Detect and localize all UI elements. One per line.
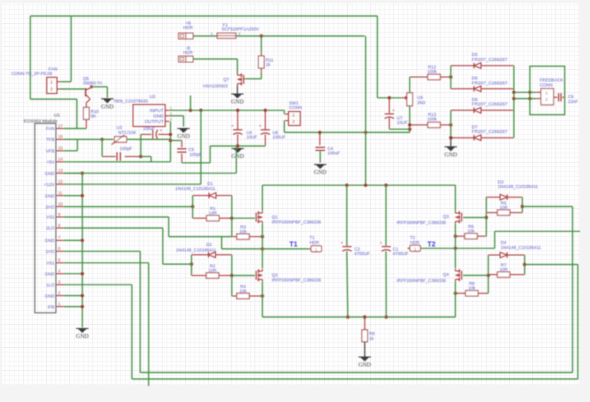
wire R4 left vert [231, 276, 233, 297]
transistor Q5 S8050-TA [83, 76, 103, 107]
resistor R12 100k [410, 65, 451, 80]
wire C3 drop to +5V row [150, 157, 152, 162]
wire T1 row [222, 248, 309, 250]
wire top +12V rail [30, 15, 377, 17]
resistor R13 100k [410, 112, 451, 128]
connector SW1 CONN [285, 100, 302, 125]
junction rail C1 [384, 184, 387, 187]
header T2 HDR [408, 235, 421, 252]
ground U4 U6 [231, 149, 244, 161]
diode D4 symbol [488, 252, 524, 258]
junction bus fb2 [512, 97, 515, 100]
junction bus pin11 [81, 194, 84, 197]
capacitor U4 10UF [231, 125, 257, 140]
wire U5 top lead [409, 77, 411, 93]
wire GND bus [81, 173, 83, 327]
junction loop fb2 [528, 97, 531, 100]
wire gate Q4 [463, 274, 488, 276]
capacitor C5 100pF [177, 141, 202, 163]
thermistor U3 NTC/10K [112, 125, 137, 144]
ground Q7 [231, 86, 244, 106]
junction TFB [100, 138, 103, 141]
junction R2 gate [230, 274, 233, 277]
junction U7 top [388, 96, 391, 99]
header +B HDR [179, 20, 193, 39]
wire D3 right vert [521, 197, 523, 212]
junction riser cap [169, 133, 172, 136]
wire FAN node drop [76, 99, 78, 128]
wire U2 gnd [169, 115, 183, 117]
wire Q5 emitter down [106, 87, 108, 98]
connector FAN CONN-TH_2P-P5.08 [11, 67, 60, 94]
diode D1 symbol [193, 193, 232, 199]
wire 1HO drop [139, 251, 141, 372]
wire 2LO row [64, 227, 163, 229]
ground R9 [358, 342, 371, 369]
wire U4 lead bot [237, 134, 239, 146]
label Q4 [397, 272, 450, 283]
wire TFB row 2 [102, 138, 113, 140]
wire VS2 drop [168, 217, 170, 237]
junction bus pin7 [81, 239, 84, 242]
label T1 net [289, 241, 297, 248]
junction R12 right [449, 75, 452, 78]
resistor R8 10k [455, 281, 488, 296]
wire D4 left vert [487, 255, 489, 293]
junction bus pin1 [81, 305, 84, 308]
junction D3 out [521, 205, 524, 208]
wire VS1 top row [495, 230, 580, 232]
wire +B to fuse [193, 35, 217, 37]
junction U5 R13 [408, 123, 411, 126]
wire VS1 riser [494, 231, 496, 248]
wire U5 bot lead [409, 106, 411, 133]
wire pin2 to bus [64, 295, 82, 297]
wire 1HO row [64, 250, 140, 252]
diode D6 symbol [451, 86, 514, 92]
transistor Q7 HSH100N03 [237, 73, 243, 86]
junction C4 top [318, 131, 321, 134]
junction gate Q3 [485, 216, 488, 219]
wire VS1 row [64, 262, 149, 264]
capacitor C6 22nF [554, 93, 579, 104]
fuse F1 SCF520PF1A250V [211, 22, 260, 38]
wire SW1 pin1 up [283, 110, 285, 114]
capacitor 100uF U2 output [141, 126, 171, 139]
wire D4 right vert [524, 255, 526, 275]
wire 1HO right riser [572, 207, 574, 373]
diode D7 symbol [451, 135, 514, 141]
wire Q3 drain up [454, 185, 456, 211]
wire D1 left vert [192, 196, 194, 219]
wire T2 row right [455, 247, 494, 249]
wire 1LO drop [131, 285, 133, 379]
wire T2 row [420, 247, 455, 249]
wire 2HO row [64, 206, 193, 208]
wire caps gnd row [210, 145, 265, 147]
wire fuse right [236, 35, 365, 37]
resistor R5 10R [486, 200, 522, 215]
wire R11 to gate [246, 72, 262, 79]
wire 1LO bottom rail [132, 378, 578, 380]
diode D2 1N4148_C10195411 [176, 242, 217, 252]
wire fb pin1 [514, 91, 537, 93]
junction input row a [189, 109, 192, 112]
header -B HDR [179, 46, 193, 62]
diode D5 FR207_C266267 [472, 52, 508, 62]
resistor R2 10R [192, 263, 232, 278]
ground D7 R13 [445, 138, 458, 159]
wire 2LO drop [162, 228, 164, 264]
diode D4 1N4148_C10195411 [501, 240, 542, 250]
wire main vertical [365, 36, 367, 132]
junction R1 gate [230, 217, 233, 220]
wire pin1 to bus [64, 306, 82, 308]
diode D6 FR207_C266267 [472, 76, 508, 86]
wire bridge top rail [262, 184, 455, 186]
wire Q5 emitter [93, 86, 108, 88]
wire gate Q3 [463, 217, 486, 219]
diode D8 FR207_C266267 [472, 97, 508, 107]
wire GND13 riser [235, 146, 237, 173]
wire U2 gnd drop [183, 116, 185, 127]
wire diode bus [513, 66, 515, 138]
wire U6 lead top [264, 110, 266, 129]
label Q1 [272, 214, 322, 224]
junction bot R9 [363, 315, 366, 318]
junction bus pin13 [81, 172, 84, 175]
junction bot C2 [346, 315, 349, 318]
junction T2 node [454, 247, 457, 250]
capacitor C3 100pF [102, 146, 141, 161]
wire C1 bot lead [385, 251, 387, 317]
resistor R10 5K [84, 107, 100, 129]
wire -B right [193, 58, 237, 60]
wire D5 left vert [450, 66, 452, 89]
wire switched row [284, 131, 409, 133]
wire 2LO to node [163, 263, 192, 265]
junction U6 top [264, 109, 267, 112]
resistor R9 1k [362, 317, 375, 342]
wire U4 lead top [237, 110, 239, 129]
wire VS2 to node [169, 236, 232, 238]
capacitor C4 100uF [319, 132, 321, 145]
junction U4 top [236, 109, 239, 112]
label Q3 [397, 214, 450, 225]
ground U2 [177, 129, 190, 141]
junction VS2 node [261, 235, 264, 238]
wire wiper feed drop [376, 16, 378, 98]
wire D1 right vert [231, 196, 233, 219]
junction loop fb1 [528, 91, 531, 94]
junction fuse node [260, 34, 263, 37]
wire 1LO return [525, 264, 578, 266]
wire +12V row U1 [64, 183, 201, 185]
module U1 EGS002 [24, 113, 64, 313]
wire FAN pin1 [61, 81, 72, 83]
wire feedback loop [530, 66, 565, 115]
ground U1 bus [76, 329, 89, 341]
wire rail right corner [454, 184, 456, 186]
diode D3 symbol [486, 194, 522, 200]
junction R4 right [261, 294, 264, 297]
capacitor U6 100UF [259, 125, 286, 140]
junction T1 node [261, 247, 264, 250]
wire main vertical 2 [365, 132, 367, 185]
capacitor C1 4700UF [380, 241, 409, 256]
wire FAN pin1 up [70, 16, 72, 82]
wire U6 lead bot [264, 134, 266, 146]
resistor R7 10R [488, 262, 524, 277]
junction bus pin4 [81, 272, 84, 275]
wire 1LO right riser [577, 265, 579, 380]
resistor R1 10R [193, 206, 232, 221]
wire C1 top lead [385, 185, 387, 246]
wire gate Q2 [232, 275, 255, 277]
diode D3 1N4148_C10195411 [498, 179, 539, 189]
junction gate Q4 [487, 274, 490, 277]
wire C4 bottom [319, 150, 321, 162]
wire pin13 to bus [64, 172, 82, 174]
header T1 HDR [309, 235, 322, 252]
capacitor C4 plates [315, 146, 340, 156]
wire +12V input row [169, 109, 284, 111]
wire Q7 gate lead [244, 78, 246, 80]
wire C3 to +5V [141, 156, 151, 158]
wire T1 jog vert [221, 237, 223, 249]
junction 2HO [191, 205, 194, 208]
wire FAN pin2 [61, 88, 85, 90]
junction D4 out [523, 263, 526, 266]
transistor Q3 IRFP260NPBF_C386336 [455, 211, 461, 224]
wire C5 bottom row [182, 162, 210, 164]
ground C4 [314, 165, 327, 177]
wire 1HO return [522, 206, 572, 208]
junction rail feed [364, 184, 367, 187]
label T2 net [427, 241, 435, 248]
junction R8 left [454, 292, 457, 295]
wire -B down to Q7 [236, 59, 238, 73]
wire TFB row [64, 138, 102, 140]
wire C3 left drop [101, 139, 103, 156]
wire SW1 pin2 down [283, 121, 285, 133]
ground Q5 [101, 99, 114, 111]
regulator U2 7805_C22378630 [113, 94, 172, 126]
junction input row b [199, 109, 202, 112]
wire gate Q1 [232, 217, 255, 219]
diode D1 1N4148_C10195411 [175, 181, 216, 191]
wire +12V down to U1 [200, 110, 202, 184]
resistor R3 10k [232, 224, 263, 239]
capacitor C2 4700UF [340, 241, 370, 256]
wire 1LO row [64, 284, 132, 286]
junction R6 left [454, 235, 457, 238]
resistor R6 10k [455, 224, 486, 239]
wire D2 right vert [231, 255, 233, 276]
wire VS2 row [64, 216, 169, 218]
junction C3 right [139, 155, 142, 158]
junction 2LO [190, 262, 193, 265]
wire R11 feed [260, 36, 262, 52]
wire Q1 src down [261, 224, 263, 269]
diode D2 symbol [192, 252, 232, 258]
resistor R11 1k [259, 52, 274, 72]
wire Q1 drain up [261, 185, 263, 211]
junction main feed [364, 131, 367, 134]
wire NTC right [127, 138, 171, 140]
junction rail C2 [345, 184, 348, 187]
wire pin11 to bus [64, 195, 82, 197]
junction U5 U7 [408, 128, 411, 131]
wire Q2 src down [261, 282, 263, 317]
potentiometer U5 2kO [401, 93, 426, 106]
wire GND13 row [64, 172, 236, 174]
wire wiper feed row [377, 97, 401, 99]
wire pin4 to bus [64, 273, 82, 275]
junction caps gnd [236, 144, 239, 147]
diode D5 symbol [451, 63, 514, 69]
wire to FAN node [30, 98, 77, 100]
wire D2 left vert [191, 255, 193, 276]
wire Q4 src down [454, 282, 456, 317]
wire bridge bottom rail [262, 316, 455, 318]
wire 1HO bottom rail [140, 372, 572, 374]
wire fb pin2 [514, 98, 537, 100]
junction bus fb1 [512, 91, 515, 94]
diode D7 FR207_C266267 [472, 125, 508, 135]
capacitor U7 10UF [385, 98, 410, 129]
resistor R4 10k [232, 284, 263, 299]
junction riser TFB [169, 139, 172, 142]
wire pin7 to bus [64, 239, 82, 241]
diode D8 symbol [451, 108, 514, 114]
wire +5V riser [170, 121, 172, 161]
wire Q3 src down [454, 224, 456, 269]
wire C2 bot lead [347, 251, 348, 317]
wire C5 top row [171, 140, 182, 142]
label Q2 [272, 273, 322, 283]
wire VFB row [64, 150, 77, 152]
transistor Q4 IRFP260NPBF_C386336 [455, 269, 461, 282]
wire rail left drop [29, 16, 31, 99]
wire D8 left vert [450, 110, 452, 137]
wire C2 top lead [346, 185, 348, 246]
connector FEEDBACK CONN [537, 77, 564, 104]
junction bot C1 [385, 315, 388, 318]
wire R10 to pin17 [64, 128, 86, 130]
wire +5V row [64, 161, 171, 163]
wire VS1 drop [148, 263, 150, 386]
wire R3 left vert [231, 218, 233, 236]
transistor Q1 IRFP260NPBF_C386336 [256, 211, 262, 224]
wire VFB jog [76, 139, 78, 150]
transistor Q2 IRFP260NPBF_C386336 [256, 269, 262, 282]
wire D3 left vert [485, 197, 487, 236]
label Q7 [203, 77, 230, 88]
wire C3 up [140, 134, 142, 156]
junction bus pin2 [81, 294, 84, 297]
wire C5 gnd riser [209, 146, 211, 163]
wire stub 190 [190, 96, 192, 111]
junction D7 gnd [449, 136, 452, 139]
junction R13 right [449, 123, 452, 126]
